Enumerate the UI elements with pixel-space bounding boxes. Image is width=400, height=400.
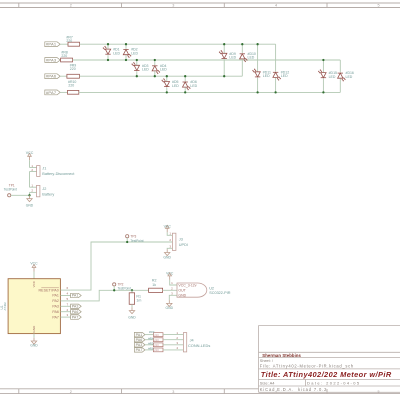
junction bbox=[184, 91, 186, 93]
svg-text:TestPoint: TestPoint bbox=[4, 187, 17, 191]
svg-text:Battery-Disconnect: Battery-Disconnect bbox=[42, 172, 75, 176]
svg-text:GND: GND bbox=[166, 306, 174, 310]
svg-text:#PA7: #PA7 bbox=[46, 90, 57, 95]
svg-text:GND: GND bbox=[30, 344, 38, 348]
wire bbox=[322, 60, 324, 72]
LED D4 bbox=[152, 64, 167, 74]
svg-text:J1: J1 bbox=[42, 166, 46, 170]
wire bbox=[223, 59, 225, 76]
wire row3 bbox=[79, 75, 242, 77]
pin stub PA7 bbox=[60, 316, 70, 318]
svg-text:SC0322-PIR: SC0322-PIR bbox=[209, 291, 231, 295]
junction bbox=[154, 75, 156, 77]
svg-text:PA1: PA1 bbox=[136, 333, 143, 337]
svg-text:KiCad E.D.A. kicad 7.0.2: KiCad E.D.A. kicad 7.0.2 bbox=[260, 387, 327, 392]
svg-text:PA7: PA7 bbox=[136, 348, 143, 352]
svg-text:2: 2 bbox=[70, 4, 72, 8]
svg-text:220: 220 bbox=[154, 338, 159, 342]
svg-text:#R5: #R5 bbox=[148, 341, 154, 345]
junction bbox=[131, 289, 133, 291]
svg-text:#PA6: #PA6 bbox=[46, 74, 57, 79]
svg-text:PA1: PA1 bbox=[72, 294, 79, 298]
wire bbox=[136, 60, 138, 65]
svg-text:VCC: VCC bbox=[30, 261, 38, 265]
wire row1 bbox=[80, 43, 276, 45]
junction bbox=[166, 75, 168, 77]
LED D3 bbox=[132, 62, 149, 71]
hierarchical label PA6 bbox=[71, 310, 82, 314]
resistor R4 220 bbox=[148, 336, 163, 342]
junction bbox=[125, 43, 127, 45]
svg-text:J3: J3 bbox=[179, 237, 183, 241]
connector J3 UPDI bbox=[169, 231, 188, 250]
junction bbox=[113, 289, 115, 291]
svg-text:File: ATtiny402-Meteor-PiR.kic: File: ATtiny402-Meteor-PiR.kicad_sch bbox=[260, 364, 354, 369]
wire bbox=[60, 91, 67, 93]
wire bbox=[241, 44, 243, 53]
wire bbox=[167, 232, 172, 235]
svg-text:GND: GND bbox=[128, 316, 136, 320]
svg-text:GND: GND bbox=[26, 204, 34, 208]
LED D1 bbox=[103, 46, 120, 55]
wire bbox=[166, 88, 168, 93]
svg-text:Date: 2022-04-05: Date: 2022-04-05 bbox=[307, 381, 361, 386]
svg-text:PA7: PA7 bbox=[72, 315, 79, 319]
hierarchical label PA1 bbox=[71, 293, 82, 297]
pin stub PA3 bbox=[60, 305, 70, 307]
wire bbox=[241, 59, 243, 76]
test point TP2 bbox=[113, 282, 131, 290]
junction bbox=[107, 43, 109, 45]
svg-text:5: 5 bbox=[378, 390, 380, 394]
svg-text:PA7: PA7 bbox=[52, 315, 59, 319]
wire bbox=[60, 43, 68, 45]
wire bbox=[163, 349, 183, 351]
resistor R3 220 bbox=[149, 330, 163, 337]
wire bbox=[59, 59, 61, 61]
wire bbox=[163, 289, 177, 291]
junction bbox=[28, 194, 30, 196]
wire J1 pin1 bbox=[30, 167, 37, 169]
hierarchical label PA7 bbox=[71, 315, 82, 319]
svg-text:VCC: VCC bbox=[32, 280, 36, 287]
svg-text:220: 220 bbox=[70, 67, 76, 71]
svg-text:GND: GND bbox=[178, 294, 186, 298]
wire bbox=[29, 172, 31, 188]
resistor R8 bbox=[61, 50, 73, 61]
svg-text:LED: LED bbox=[329, 75, 336, 79]
pin stub RESET/PA0 bbox=[60, 289, 70, 291]
pin stub PA2 bbox=[60, 300, 70, 302]
wire bbox=[170, 280, 177, 285]
resistor R10 bbox=[68, 80, 79, 94]
svg-text:LED: LED bbox=[263, 74, 270, 78]
svg-text:LED: LED bbox=[248, 56, 255, 60]
hierarchical label PA3 bbox=[71, 304, 82, 308]
svg-text:220: 220 bbox=[68, 83, 74, 87]
power symbol VCC (battery) bbox=[26, 151, 34, 160]
resistor R5 220 bbox=[148, 341, 163, 347]
title block bbox=[259, 326, 400, 393]
junction bbox=[154, 59, 156, 61]
connector J4 CONN-LEDs bbox=[176, 331, 210, 352]
svg-text:PA6: PA6 bbox=[52, 310, 59, 314]
svg-text:OUT: OUT bbox=[178, 289, 186, 293]
wire PA2 to PIR bbox=[71, 290, 149, 301]
wire bbox=[60, 75, 67, 77]
connector J2 Battery bbox=[31, 184, 54, 197]
resistor R6 220 bbox=[148, 347, 163, 353]
wire bbox=[145, 349, 153, 351]
svg-text:LED: LED bbox=[131, 51, 138, 55]
wire bbox=[11, 194, 30, 196]
wire bbox=[125, 44, 127, 49]
wire bbox=[145, 339, 153, 341]
wire J2 pin2 bbox=[30, 191, 37, 193]
wire bbox=[275, 78, 277, 93]
wire bbox=[33, 334, 35, 338]
svg-text:1m: 1m bbox=[136, 299, 141, 303]
wire bbox=[257, 78, 259, 93]
svg-text:R1: R1 bbox=[136, 294, 141, 298]
wire J2 pin1 bbox=[30, 186, 37, 188]
svg-text:LED: LED bbox=[172, 84, 179, 88]
LED D11 bbox=[253, 69, 271, 78]
junction bbox=[166, 91, 168, 93]
hierarchical label #PA7 bbox=[45, 90, 60, 95]
wire bbox=[184, 88, 186, 93]
svg-text:VCC: VCC bbox=[166, 272, 174, 276]
svg-text:PA3: PA3 bbox=[72, 305, 79, 309]
svg-text:LED: LED bbox=[113, 51, 120, 55]
LED D15 bbox=[318, 70, 337, 79]
svg-text:TestPoint: TestPoint bbox=[130, 239, 143, 243]
svg-text:PA2: PA2 bbox=[52, 299, 59, 303]
junction bbox=[136, 59, 138, 61]
junction bbox=[256, 91, 258, 93]
svg-text:J2: J2 bbox=[42, 187, 46, 191]
wire bbox=[275, 44, 277, 71]
hierarchical label #PA1 bbox=[45, 42, 60, 47]
svg-text:LED: LED bbox=[346, 75, 353, 79]
ground (J3) bbox=[163, 249, 171, 259]
svg-text:VCC: VCC bbox=[164, 224, 172, 228]
svg-text:220: 220 bbox=[154, 348, 159, 352]
junction bbox=[125, 59, 127, 61]
wire bbox=[154, 71, 156, 76]
svg-text:220: 220 bbox=[154, 343, 159, 347]
svg-text:4: 4 bbox=[275, 4, 277, 8]
junction bbox=[184, 75, 186, 77]
svg-text:LED: LED bbox=[142, 68, 149, 72]
test point TP3 bbox=[126, 234, 144, 243]
wire row4 bbox=[79, 91, 341, 93]
ground bbox=[26, 195, 34, 207]
svg-text:#PA1: #PA1 bbox=[46, 42, 57, 47]
svg-text:PA1: PA1 bbox=[52, 294, 59, 298]
wire bbox=[163, 344, 183, 346]
LED D6 bbox=[183, 80, 198, 90]
svg-text:2: 2 bbox=[70, 390, 72, 394]
svg-text:UPDI: UPDI bbox=[179, 243, 188, 247]
hierarchical label PA6 (grid) bbox=[134, 338, 145, 342]
svg-text:LED: LED bbox=[160, 68, 167, 72]
svg-text:PA3: PA3 bbox=[52, 305, 59, 309]
resistor R1 1m bbox=[129, 293, 141, 305]
wire bbox=[339, 60, 341, 72]
svg-text:GND: GND bbox=[32, 325, 36, 333]
svg-text:Sheet: /: Sheet: / bbox=[260, 359, 274, 363]
svg-text:VCC_3-12v: VCC_3-12v bbox=[178, 283, 196, 287]
power symbol VCC (J3) bbox=[164, 224, 172, 232]
junction bbox=[107, 59, 109, 61]
svg-text:J4: J4 bbox=[190, 338, 194, 342]
junction bbox=[136, 75, 138, 77]
svg-text:5: 5 bbox=[378, 4, 380, 8]
LED D12 bbox=[273, 70, 289, 80]
wire bbox=[125, 55, 127, 60]
junction bbox=[223, 75, 225, 77]
power symbol VCC (U1) bbox=[30, 261, 38, 271]
svg-text:LED: LED bbox=[281, 74, 288, 78]
resistor R2 1k bbox=[149, 279, 163, 293]
wire RESET/PA0 to UPDI bbox=[71, 242, 173, 290]
wire bbox=[29, 160, 31, 167]
power symbol VCC (U2) bbox=[166, 272, 174, 280]
wire bbox=[154, 60, 156, 65]
junction bbox=[274, 91, 276, 93]
svg-text:PA3: PA3 bbox=[136, 343, 143, 347]
wire bbox=[145, 334, 153, 336]
svg-text:GND: GND bbox=[163, 255, 171, 259]
wire bbox=[169, 295, 177, 300]
LED D9 bbox=[219, 50, 236, 59]
junction bbox=[322, 59, 324, 61]
junction bbox=[322, 91, 324, 93]
wire bbox=[163, 339, 183, 341]
wire bbox=[339, 79, 341, 93]
svg-text:TP3: TP3 bbox=[130, 234, 136, 238]
wire bbox=[107, 55, 109, 60]
junction bbox=[223, 43, 225, 45]
wire bbox=[166, 76, 168, 81]
wire bbox=[29, 192, 31, 195]
svg-text:LED: LED bbox=[190, 84, 197, 88]
hierarchical label #PA3 bbox=[45, 57, 60, 62]
svg-text:AT402: AT402 bbox=[3, 302, 7, 311]
wire bbox=[107, 44, 109, 49]
svg-text:3: 3 bbox=[172, 4, 174, 8]
hierarchical label PA1 (grid) bbox=[134, 332, 145, 336]
svg-text:R2: R2 bbox=[152, 279, 157, 283]
svg-text:TestPoint: TestPoint bbox=[118, 287, 131, 291]
PIR sensor U2 SC0322-PIR bbox=[171, 281, 231, 298]
junction bbox=[256, 43, 258, 45]
svg-text:220: 220 bbox=[61, 54, 67, 58]
test point TP1 bbox=[4, 183, 17, 197]
svg-text:1k: 1k bbox=[152, 283, 156, 287]
svg-text:Title: ATtiny402/202 Meteor w/: Title: ATtiny402/202 Meteor w/PiR bbox=[261, 370, 392, 379]
wire bbox=[322, 79, 324, 93]
wire row2 bbox=[73, 59, 341, 61]
ground (U1) bbox=[30, 338, 38, 348]
wire bbox=[136, 71, 138, 76]
svg-text:#R6: #R6 bbox=[148, 347, 154, 351]
svg-text:Battery: Battery bbox=[42, 193, 54, 197]
junction bbox=[126, 241, 128, 243]
wire bbox=[145, 344, 153, 346]
LED D10 bbox=[240, 52, 256, 62]
svg-text:Sherman Stebbins: Sherman Stebbins bbox=[262, 353, 301, 358]
wire J1 pin2 bbox=[30, 171, 37, 173]
svg-text:#R4: #R4 bbox=[148, 336, 154, 340]
wire bbox=[131, 290, 133, 293]
svg-text:VCC: VCC bbox=[26, 151, 34, 155]
svg-text:RESET/PA0: RESET/PA0 bbox=[38, 288, 58, 292]
LED D2 bbox=[123, 48, 138, 58]
resistor R9 bbox=[67, 64, 80, 79]
LED D5 bbox=[162, 79, 179, 88]
svg-text:220: 220 bbox=[154, 333, 159, 337]
connector J1 Battery-Disconnect bbox=[31, 164, 75, 177]
svg-text:3: 3 bbox=[172, 390, 174, 394]
hierarchical label PA3 (grid) bbox=[134, 343, 145, 347]
svg-text:220: 220 bbox=[66, 39, 72, 43]
hierarchical label #PA6 bbox=[45, 74, 60, 79]
wire bbox=[33, 272, 35, 279]
pin stub PA6 bbox=[60, 311, 70, 313]
wire bbox=[184, 76, 186, 81]
pin stub PA1 bbox=[60, 295, 70, 297]
hierarchical label PA7 (grid) bbox=[134, 348, 145, 352]
svg-text:PA6: PA6 bbox=[136, 338, 143, 342]
LED D16 bbox=[338, 71, 354, 81]
MCU U1 ATtiny402 bbox=[0, 279, 68, 334]
svg-text:CONN-LEDs: CONN-LEDs bbox=[188, 343, 210, 348]
wire bbox=[167, 247, 172, 250]
svg-text:#PA3: #PA3 bbox=[46, 57, 57, 62]
ground (R1) bbox=[128, 307, 136, 319]
wire bbox=[163, 334, 183, 336]
resistor R7 bbox=[66, 36, 79, 47]
wire bbox=[223, 44, 225, 53]
svg-text:PA6: PA6 bbox=[72, 310, 79, 314]
wire bbox=[131, 304, 133, 307]
junction bbox=[241, 43, 243, 45]
svg-text:U2: U2 bbox=[209, 286, 214, 290]
svg-text:LED: LED bbox=[229, 56, 236, 60]
wire bbox=[257, 44, 259, 71]
svg-text:Size: A4: Size: A4 bbox=[260, 381, 275, 386]
ground (U2) bbox=[166, 300, 174, 310]
